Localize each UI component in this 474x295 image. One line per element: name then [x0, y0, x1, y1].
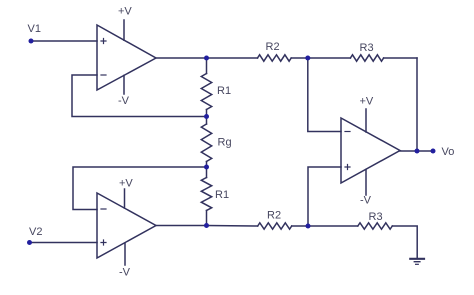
wire R2 bottom to node F — [292, 225, 308, 227]
op-amp U2 (bottom-left) — [97, 193, 156, 258]
wire U2 feedback (node C to minus input) — [73, 167, 207, 210]
output node junction — [415, 149, 420, 154]
U3 minus input marker — [345, 131, 350, 133]
svg-text:V1: V1 — [28, 23, 41, 35]
U1 +V supply pin — [123, 20, 125, 40]
wire R3 bottom to ground — [392, 226, 417, 258]
terminal Vo — [431, 149, 436, 154]
U3 +V supply pin — [365, 109, 367, 132]
op-amp U3 (right) — [341, 118, 400, 183]
wire U1 feedback (minus input to node B) — [72, 75, 207, 117]
wire feedback vertical to output node — [416, 58, 418, 151]
svg-text:-V: -V — [119, 267, 131, 279]
ground — [410, 258, 424, 260]
node A junction — [204, 56, 209, 61]
U1 plus input marker — [101, 39, 106, 44]
svg-text:-V: -V — [360, 195, 372, 207]
wire node A to R2 top — [207, 57, 258, 59]
resistor Rg — [201, 124, 211, 162]
U3 plus input marker — [345, 165, 350, 170]
wire node F to R3 bottom — [308, 225, 358, 227]
wire V2 to U2 + input — [30, 242, 98, 244]
svg-text:-V: -V — [118, 95, 130, 107]
wire node D to R2 bottom — [207, 225, 258, 228]
wire R1 top to node B — [206, 110, 208, 117]
wire V1 to U1 + input — [31, 40, 97, 42]
resistor R3 (top, feedback) — [350, 55, 383, 61]
U2 minus input marker — [101, 208, 106, 210]
svg-text:R1: R1 — [217, 85, 231, 97]
wire node F up to U3 plus input — [308, 167, 341, 226]
U1 minus input marker — [101, 74, 106, 76]
wire Rg to node C — [206, 162, 208, 168]
node B junction — [204, 114, 209, 119]
wire U1 output to node A — [156, 57, 207, 59]
wire node E down to U3 minus input — [308, 58, 341, 132]
U3 -V supply pin — [365, 170, 367, 196]
svg-text:Rg: Rg — [218, 137, 232, 149]
svg-text:+V: +V — [119, 178, 133, 190]
node F junction — [306, 224, 311, 229]
resistor R1 (bottom) — [201, 178, 211, 211]
svg-text:R3: R3 — [369, 211, 383, 223]
wire U2 output to node D — [156, 225, 207, 227]
terminal V2 — [27, 240, 32, 245]
wire R2 top to node E — [291, 57, 308, 59]
op-amp U1 (top-left) — [97, 25, 156, 90]
node E junction — [305, 56, 310, 61]
node D junction — [204, 223, 209, 228]
resistor R3 (bottom, to ground) — [358, 223, 393, 229]
wire node B to Rg — [206, 117, 208, 125]
svg-text:R2: R2 — [267, 210, 281, 222]
svg-text:+V: +V — [118, 6, 132, 18]
resistor R1 (top) — [201, 74, 211, 110]
svg-text:Vo: Vo — [442, 146, 455, 158]
U2 -V supply pin — [124, 243, 126, 265]
resistor R2 (top) — [258, 55, 292, 61]
svg-text:R2: R2 — [266, 41, 280, 53]
U2 plus input marker — [101, 240, 106, 245]
terminal V1 — [29, 39, 34, 44]
U1 -V supply pin — [123, 75, 125, 94]
svg-text:V2: V2 — [29, 226, 42, 238]
wire node A to R1 top — [206, 58, 208, 74]
wire R3 top to feedback corner — [384, 57, 417, 59]
resistor R2 (bottom) — [258, 223, 292, 229]
wire node C to R1 bottom — [206, 167, 208, 178]
wire R1 bottom to node D — [206, 211, 208, 226]
U2 +V supply pin — [124, 189, 126, 208]
wire node E to R3 top — [308, 57, 351, 59]
svg-text:R1: R1 — [215, 189, 229, 201]
svg-text:R3: R3 — [360, 42, 374, 54]
node C junction — [204, 165, 209, 170]
svg-text:+V: +V — [360, 96, 374, 108]
wire U3 output to Vo — [400, 150, 433, 152]
